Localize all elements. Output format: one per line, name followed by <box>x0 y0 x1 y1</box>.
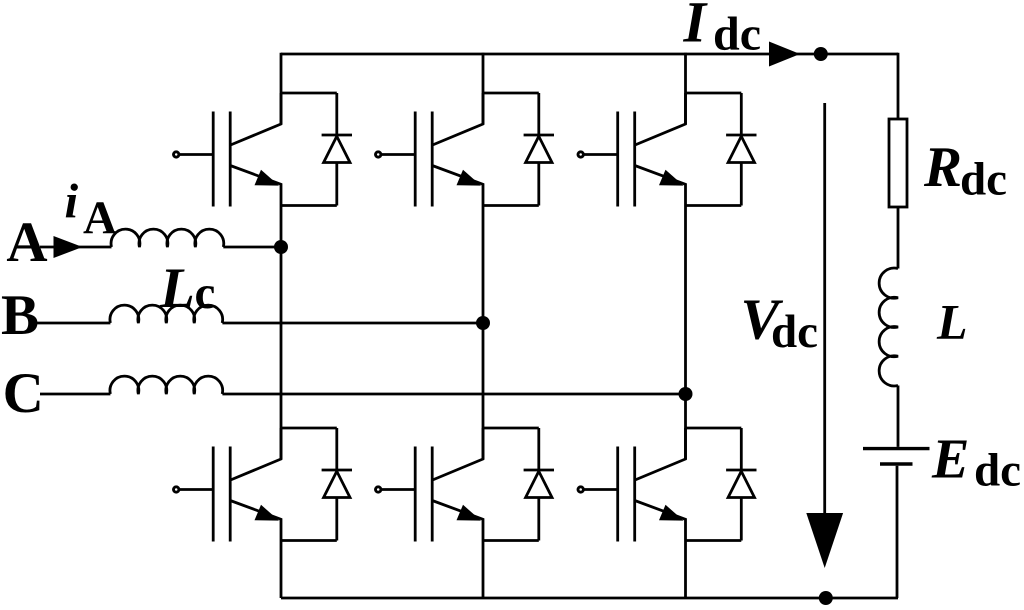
wire: phase leg A bottom (Q4 emitter to bottom bus) <box>280 541 283 599</box>
wire: L to Edc <box>897 386 900 447</box>
diode D5 (antiparallel with Q5) <box>524 428 554 541</box>
transistor Q4 (IGBT, lower leg A) <box>174 428 282 542</box>
wire: phase leg C vertical (top bus to Q3) <box>684 53 687 124</box>
battery source Edc (long plate) <box>863 447 930 450</box>
svg-text:dc: dc <box>771 306 818 358</box>
battery source Edc (short plate) <box>880 462 913 465</box>
voltage arrow Vdc (DC link voltage) <box>823 103 826 516</box>
transistor Q1 (IGBT, upper leg A) <box>174 93 282 207</box>
wire: phase leg C middle (Q3 emitter to Q6 collector through node C) <box>684 206 687 460</box>
wire: phase leg B vertical (top bus to Q2) <box>482 53 485 124</box>
diode D6 (antiparallel with Q6) <box>726 428 756 541</box>
svg-text:I: I <box>683 0 709 54</box>
wire: phase leg B middle (Q2 emitter to Q5 collector through node B) <box>482 206 485 460</box>
wire: phase B input lead <box>35 322 110 325</box>
inductor Lc phase C <box>110 376 223 394</box>
wire: Edc to bottom bus <box>896 466 899 598</box>
svg-text:A: A <box>6 211 47 274</box>
svg-text:E: E <box>931 429 969 491</box>
svg-text:B: B <box>1 284 39 347</box>
wire: Q4-D4 links <box>281 428 337 541</box>
wire: phase A input lead <box>40 246 112 249</box>
wire: Rdc to L <box>897 207 900 269</box>
current arrow Idc on top bus <box>769 42 800 67</box>
wire: phase leg A middle (Q1 emitter to Q4 collector through node A) <box>280 206 283 460</box>
wire: phase leg A vertical (top bus to Q1) <box>280 53 283 124</box>
inductor Lc phase B <box>110 305 223 323</box>
inductor L (DC smoothing) <box>879 268 898 386</box>
node: top bus junction dot <box>814 47 828 61</box>
diode D2 (antiparallel with Q2) <box>524 93 554 206</box>
transistor Q2 (IGBT, upper leg B) <box>376 93 484 207</box>
svg-text:i: i <box>65 174 79 229</box>
wire: phase C input lead <box>40 393 110 396</box>
transistor Q6 (IGBT, lower leg C) <box>578 428 686 542</box>
wire: Q3-D3 links <box>686 93 742 206</box>
resistor Rdc <box>889 119 907 207</box>
diode D3 (antiparallel with Q3) <box>726 93 756 206</box>
wire: phase B to leg node <box>222 322 483 325</box>
wire: phase leg C bottom (Q6 emitter to bottom bus) <box>684 541 687 599</box>
current arrow iA on phase A lead <box>54 236 83 258</box>
diode D4 (antiparallel with Q4) <box>322 428 352 541</box>
wire: bottom DC bus <box>281 597 898 600</box>
svg-text:L: L <box>936 294 968 350</box>
node C (leg C midpoint dot) <box>679 387 693 401</box>
transistor Q5 (IGBT, lower leg B) <box>376 428 484 542</box>
wire: phase C to leg node <box>222 393 685 396</box>
diode D1 (antiparallel with Q1) <box>322 93 352 206</box>
wire: Q1-D1 links <box>281 93 337 206</box>
node B (leg B midpoint dot) <box>476 316 490 330</box>
wire: top DC bus <box>281 53 898 56</box>
node A (leg A midpoint dot) <box>274 240 288 254</box>
svg-text:dc: dc <box>974 445 1021 497</box>
wire: Q6-D6 links <box>686 428 742 541</box>
svg-text:R: R <box>923 136 962 199</box>
svg-text:dc: dc <box>960 153 1007 205</box>
inductor Lc phase A <box>111 229 224 247</box>
node: bottom bus junction dot <box>819 591 833 605</box>
wire: Q2-D2 links <box>483 93 539 206</box>
wire: Q5-D5 links <box>483 428 539 541</box>
wire: phase A to leg node <box>223 246 281 249</box>
svg-text:dc: dc <box>713 7 761 60</box>
wire: right branch top (bus corner down to Rdc) <box>897 53 900 119</box>
wire: phase leg B bottom (Q5 emitter to bottom bus) <box>482 541 485 599</box>
transistor Q3 (IGBT, upper leg C) <box>578 93 686 207</box>
svg-text:C: C <box>3 362 44 425</box>
